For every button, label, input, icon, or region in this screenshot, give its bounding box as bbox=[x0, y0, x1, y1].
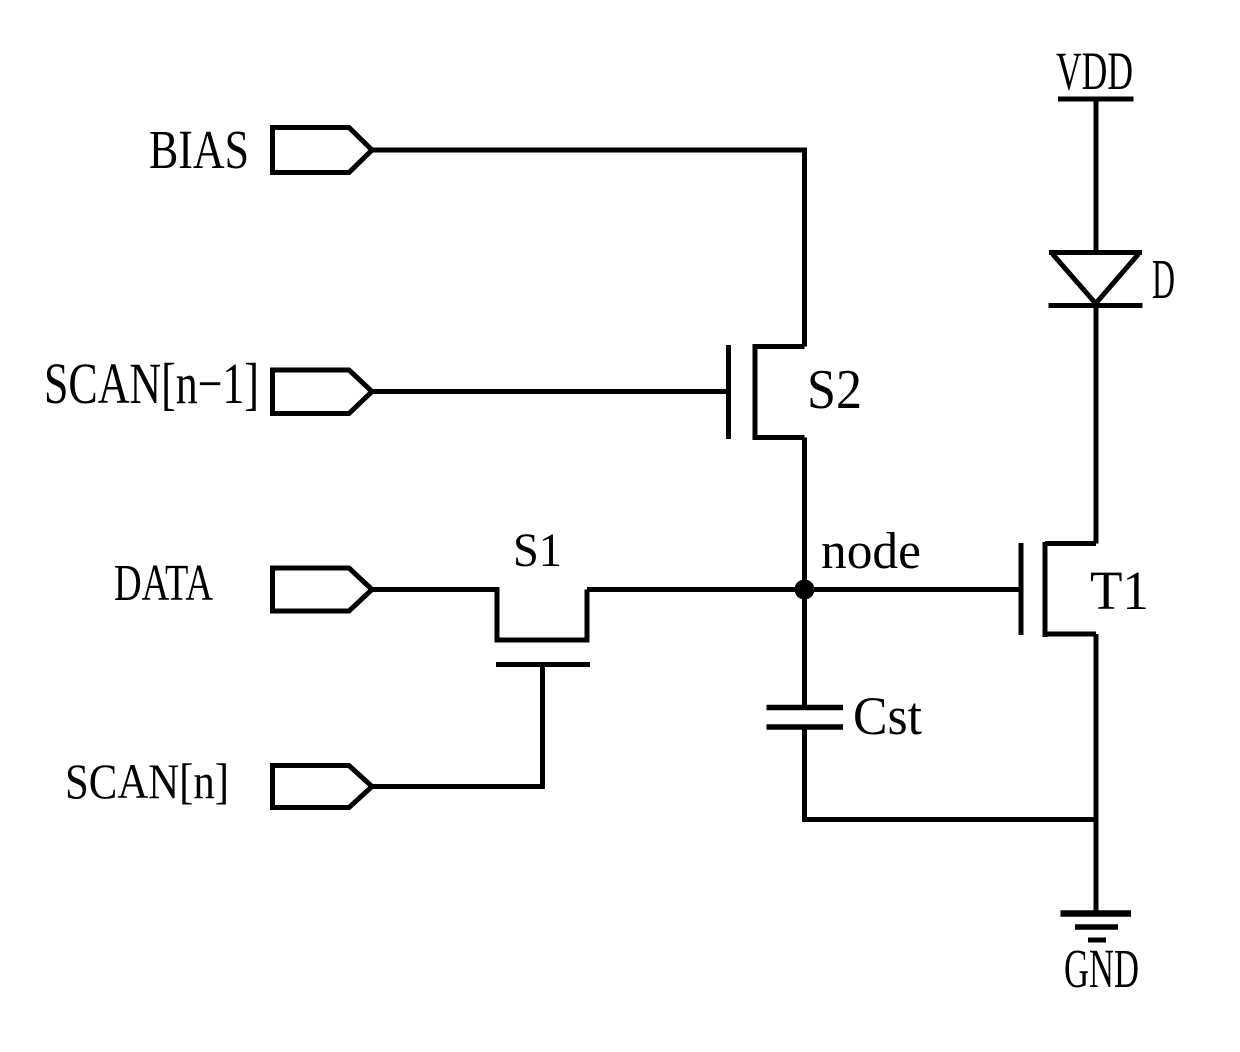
svg-text:D: D bbox=[1152, 249, 1175, 311]
wire diode to T1 drain bbox=[1094, 306, 1099, 544]
wire S2 source to node bbox=[802, 438, 807, 590]
terminal SCAN[n] bbox=[273, 766, 373, 808]
terminal BIAS bbox=[273, 128, 373, 173]
wire node to Cst bbox=[802, 590, 807, 706]
terminal SCAN[n-1] bbox=[273, 370, 373, 414]
terminal DATA bbox=[273, 568, 373, 611]
transistor S2 bbox=[729, 344, 805, 440]
wire VDD to diode bbox=[1094, 99, 1099, 252]
wire Cst to ground rail bbox=[805, 730, 1097, 820]
wire SCAN[n] to S1 gate bbox=[372, 665, 543, 787]
svg-text:VDD: VDD bbox=[1056, 41, 1133, 101]
svg-text:BIAS: BIAS bbox=[149, 119, 249, 180]
svg-text:S1: S1 bbox=[513, 524, 562, 577]
svg-text:Cst: Cst bbox=[853, 686, 922, 746]
svg-text:SCAN[n]: SCAN[n] bbox=[65, 753, 229, 809]
svg-text:T1: T1 bbox=[1090, 560, 1149, 621]
svg-text:node: node bbox=[821, 523, 921, 580]
wire DATA to S1 bbox=[372, 590, 497, 641]
diode D bbox=[1049, 253, 1143, 306]
ground GND bbox=[1061, 914, 1132, 941]
wire BIAS to S2 drain bbox=[372, 150, 805, 347]
power VDD bar bbox=[1058, 97, 1134, 102]
transistor S1 bbox=[495, 590, 591, 665]
transistor T1 bbox=[1021, 542, 1096, 637]
wire T1 source to ground bbox=[1094, 634, 1099, 914]
svg-text:DATA: DATA bbox=[114, 555, 213, 612]
svg-text:GND: GND bbox=[1064, 938, 1139, 999]
wire node to T1 gate bbox=[805, 587, 1019, 592]
wire S1 to node bbox=[587, 587, 805, 592]
node dot bbox=[795, 580, 815, 600]
capacitor Cst bbox=[767, 708, 844, 728]
svg-text:S2: S2 bbox=[807, 359, 862, 421]
svg-text:SCAN[n−1]: SCAN[n−1] bbox=[44, 351, 259, 416]
wire SCAN[n-1] to S2 gate bbox=[372, 389, 726, 394]
